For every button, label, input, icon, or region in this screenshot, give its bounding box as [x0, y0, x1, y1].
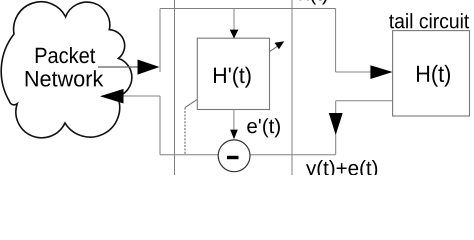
label H'(t) [214, 67, 251, 88]
arrowhead to network [100, 89, 124, 104]
dashed feedback line [184, 108, 186, 155]
wire canceller left edge [174, 0, 176, 175]
cloud: packet network [1, 2, 132, 138]
label y(t)+e(t) [306, 160, 377, 180]
wire e'(t) bottom bus [160, 154, 336, 156]
arrowhead into summer [230, 130, 238, 140]
label e'(t) [247, 118, 280, 137]
wire x(t) top bus [160, 8, 336, 10]
wire left vertical upper segment [159, 9, 161, 73]
wire return to network [123, 95, 160, 97]
minus sign [227, 156, 239, 159]
wire echo from H(t) [336, 100, 393, 102]
wire canceller right edge [291, 0, 293, 175]
wire left vertical lower segment [159, 96, 161, 155]
wire filter to summer [233, 110, 235, 131]
summing node [218, 140, 250, 172]
label Network [26, 70, 104, 86]
arrowhead into H(t) [370, 65, 392, 79]
tail circuit box H(t) [393, 31, 470, 116]
adaptation diagonal arrow [185, 41, 284, 107]
filter box H'(t) [197, 38, 269, 109]
label H(t) [417, 65, 450, 87]
wire echo down-leg [335, 101, 337, 155]
label x(t) cut at top [299, 0, 327, 5]
wire from packet network [98, 66, 138, 68]
arrowhead echo into canceller [329, 113, 343, 135]
wire send into tail circuit [336, 71, 371, 73]
label tail circuit [389, 13, 469, 28]
wire send down-leg [335, 9, 337, 73]
wire tap into filter [233, 9, 235, 31]
arrowhead into filter [230, 30, 239, 39]
arrowhead into canceller [138, 60, 160, 75]
label Packet [36, 47, 95, 63]
